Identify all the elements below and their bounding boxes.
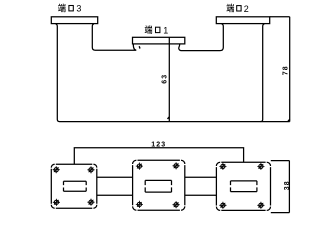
svg-text:1: 1 [163,25,168,35]
svg-text:2: 2 [244,4,249,14]
svg-text:63: 63 [161,74,168,84]
svg-text:78: 78 [282,65,289,75]
svg-text:3: 3 [76,4,81,14]
